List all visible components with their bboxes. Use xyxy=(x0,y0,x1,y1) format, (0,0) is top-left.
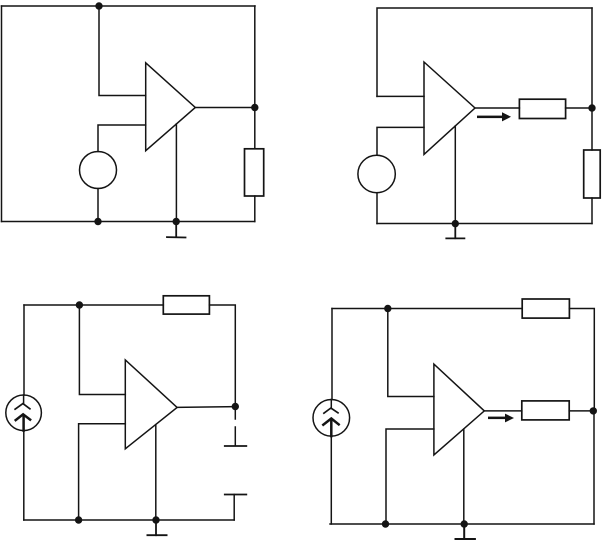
wire: C3 output port upper stub xyxy=(234,409,236,446)
wire: C4 non-inverting input to ground rail xyxy=(386,429,434,524)
wire: C3 op-amp output xyxy=(177,406,235,409)
wire: C4 op-amp output xyxy=(484,410,522,412)
wire: C4 left source riser xyxy=(331,309,333,400)
resistor R1 (load) xyxy=(245,149,264,196)
wire: C1 inverting input drop from feedback tap xyxy=(99,6,146,96)
wire: C2 source bottom lead xyxy=(376,193,378,224)
junction: C2 op-amp ground tie xyxy=(452,220,459,227)
resistor R6 (series current sense) xyxy=(522,401,569,420)
junction: C1 output node xyxy=(251,104,258,111)
wire: C3 feedback resistor to output node xyxy=(209,305,235,407)
junction: C4 non-inverting ground tie xyxy=(382,520,389,527)
wire: C3 non-inverting input to ground rail xyxy=(79,424,126,520)
junction: C1 feedback tap on top rail xyxy=(95,2,102,9)
resistor R4 (feedback) xyxy=(163,296,209,314)
wire: C3 inverting input drop xyxy=(79,305,125,395)
wire: C1 op-amp output xyxy=(195,107,255,109)
resistor R3 (load) xyxy=(584,150,601,198)
wire: C2 left riser and top feedback rail xyxy=(377,8,592,96)
junction: C2 output node xyxy=(588,104,595,111)
junction: C3 output node xyxy=(232,403,239,410)
wire: C1 right rail (top corner down to load resistor) xyxy=(254,6,256,149)
wire: C1 source bottom lead xyxy=(97,189,99,222)
ground GND3 xyxy=(147,520,166,535)
wire: C4 feedback resistor to right rail xyxy=(569,309,594,409)
wire: C2 sense resistor to output node xyxy=(566,107,592,109)
current arrow: C4 output current into sense resistor xyxy=(488,414,514,423)
resistor R5 (feedback) xyxy=(522,299,569,318)
current source IS1 xyxy=(6,395,42,431)
wire: C3 bottom ground rail xyxy=(24,519,234,521)
wire: C4 inverting input drop xyxy=(388,309,434,397)
wire: C3 top rail to feedback resistor xyxy=(24,304,163,306)
wire: C2 non-inverting input from source VS2 xyxy=(377,127,424,155)
wire: C4 sense resistor to output node xyxy=(569,410,593,412)
current arrow: C2 output current into sense resistor xyxy=(477,112,511,121)
op-amp U1 xyxy=(146,63,196,151)
wire: C1 non-inverting input from source VS1 xyxy=(98,125,146,152)
wire: C2 load resistor bottom lead xyxy=(591,198,593,224)
junction: C3 non-inverting ground tie xyxy=(75,516,82,523)
wire: C1 load resistor to ground rail xyxy=(254,196,256,222)
junction: C1 op-amp ground tie xyxy=(173,218,180,225)
wire: C4 op-amp ground lead xyxy=(463,429,465,524)
current source IS2 xyxy=(313,400,350,437)
ground GND4 xyxy=(456,524,475,539)
wire: C2 op-amp ground lead xyxy=(454,126,456,224)
resistor R2 (series current sense) xyxy=(519,99,565,118)
wire: C4 right rail from output node to ground rail xyxy=(593,411,595,524)
wire: C2 right rail (top corner down to load resistor) xyxy=(591,8,593,150)
wire: C2 op-amp output xyxy=(475,107,519,109)
wire: C1 bottom ground rail xyxy=(2,221,255,223)
op-amp U2 xyxy=(424,62,475,154)
ground GND1 xyxy=(167,222,186,238)
ground: C3 output port upper plate xyxy=(225,445,247,447)
wire: C3 source bottom lead xyxy=(23,431,25,520)
junction: C4 output node xyxy=(590,407,597,414)
wire: C2 bottom ground rail xyxy=(377,223,592,225)
wire: C3 lower plate stub to ground rail xyxy=(233,495,235,521)
wire: C3 left source riser xyxy=(23,305,25,395)
junction: C3 op-amp ground tie xyxy=(152,516,159,523)
voltage source VS2 xyxy=(358,155,395,192)
wire: C4 top rail to feedback resistor xyxy=(332,308,522,310)
wire: C4 source bottom lead xyxy=(330,436,332,524)
ground GND2 xyxy=(446,224,464,239)
junction: C4 op-amp ground tie xyxy=(461,520,468,527)
ground: C3 output port lower plate xyxy=(225,494,247,496)
wire: C4 bottom ground rail xyxy=(330,523,594,525)
wire: C1 left return rail xyxy=(1,6,3,222)
junction: C4 inverting feedback tap xyxy=(384,305,391,312)
wire: C2 inverting input xyxy=(377,95,424,97)
op-amp U4 xyxy=(434,364,484,455)
junction: C1 source to ground rail xyxy=(94,218,101,225)
wire: C1 top feedback rail xyxy=(2,5,256,7)
wire: C3 op-amp ground lead xyxy=(155,425,157,520)
op-amp U3 xyxy=(125,360,177,449)
voltage source VS1 xyxy=(80,152,117,189)
wire: C1 op-amp ground lead xyxy=(175,124,177,222)
junction: C3 inverting feedback tap xyxy=(76,301,83,308)
